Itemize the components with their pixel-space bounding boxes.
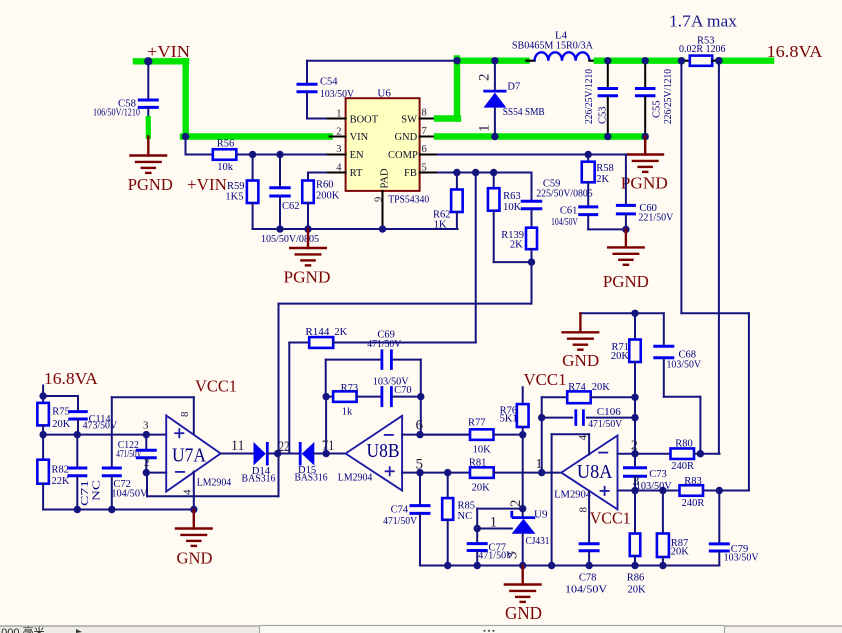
svg-text:16.8VA: 16.8VA <box>44 369 98 388</box>
node D7 bottom junction <box>491 133 498 140</box>
svg-text:471/50V: 471/50V <box>478 551 513 562</box>
svg-text:2: 2 <box>508 500 524 508</box>
wire long horizontal to U7A feedback <box>279 303 532 305</box>
wire R73 row to output node <box>325 397 327 454</box>
svg-text:R81: R81 <box>469 458 487 469</box>
status bar <box>0 626 842 633</box>
svg-text:R80: R80 <box>675 439 693 450</box>
wire U8B pin6 row <box>402 434 470 436</box>
svg-text:103/50V: 103/50V <box>667 360 702 371</box>
resistor R86 <box>634 491 636 534</box>
pin 5 FB <box>420 172 440 174</box>
svg-text:U9: U9 <box>534 509 548 521</box>
wire COMP net <box>438 154 626 156</box>
pin 8 SW <box>420 118 440 120</box>
capacitor C68 <box>663 313 665 345</box>
node R60/PGND junction <box>304 225 311 232</box>
svg-text:2K: 2K <box>334 327 347 338</box>
svg-text:2K: 2K <box>596 174 609 185</box>
svg-text:U8A: U8A <box>577 461 613 483</box>
svg-text:R56: R56 <box>217 139 235 150</box>
capacitor C106 <box>542 417 573 419</box>
svg-text:VCC1: VCC1 <box>590 509 631 528</box>
pin 1 BOOT <box>328 118 346 120</box>
svg-text:104/50V: 104/50V <box>111 489 147 500</box>
capacitor C59 <box>531 173 533 201</box>
svg-text:R63: R63 <box>503 191 521 202</box>
capacitor C71 <box>76 435 78 467</box>
svg-text:LM2904: LM2904 <box>197 477 232 489</box>
wire to C114 <box>43 395 78 397</box>
svg-text:22: 22 <box>279 439 290 455</box>
svg-text:C70: C70 <box>394 385 412 396</box>
wire green output rail after L4 <box>597 58 682 64</box>
capacitor C69 <box>326 359 382 361</box>
diode D7 <box>494 61 496 90</box>
svg-text:20K: 20K <box>628 585 647 596</box>
ground PGND (output caps) <box>644 137 646 155</box>
pin 6 COMP <box>420 154 440 156</box>
svg-text:1K: 1K <box>434 220 447 231</box>
wire reference node down to U9 <box>522 435 524 509</box>
svg-text:200K: 200K <box>316 191 340 202</box>
svg-text:GND: GND <box>505 603 542 623</box>
svg-text:R74: R74 <box>568 382 586 393</box>
svg-text:1: 1 <box>536 457 543 472</box>
node R80 right junction <box>697 450 704 457</box>
svg-text:BAS316: BAS316 <box>295 473 328 484</box>
wire U8A plus row <box>618 490 680 492</box>
wire green 16.8VA stub <box>719 58 771 64</box>
ground PGND (C58) <box>147 137 149 156</box>
resistor R83 <box>680 485 704 496</box>
svg-text:11: 11 <box>231 438 245 454</box>
svg-text:R144: R144 <box>305 327 330 338</box>
node C79 top junction <box>716 487 723 494</box>
resistor R60 <box>302 181 314 204</box>
wire GND row above R71/C68 <box>580 312 663 314</box>
node R83/R87 junction <box>659 487 666 494</box>
svg-text:240R: 240R <box>671 461 694 472</box>
resistor R82 <box>42 435 44 460</box>
svg-text:COMP: COMP <box>388 150 418 161</box>
svg-text:20K: 20K <box>592 382 611 393</box>
svg-text:240R: 240R <box>682 498 705 509</box>
svg-text:R86: R86 <box>627 573 645 584</box>
capacitor C70 <box>380 386 383 407</box>
svg-text:PGND: PGND <box>621 174 668 193</box>
node R85 bottom junction <box>444 562 451 569</box>
resistor R71 <box>634 313 636 339</box>
capacitor C78 <box>579 542 600 545</box>
node R73 row left junction <box>322 393 329 400</box>
node R74 right junction <box>631 394 638 401</box>
op-amp U7A <box>166 416 220 492</box>
svg-text:C74: C74 <box>391 505 409 516</box>
wire R139 node down <box>531 262 533 304</box>
svg-text:C106: C106 <box>597 407 621 418</box>
svg-text:221/50V: 221/50V <box>638 213 673 224</box>
pin 4 U8A power route <box>588 434 590 454</box>
svg-text:4: 4 <box>336 163 342 174</box>
svg-text:PAD: PAD <box>380 168 391 188</box>
capacitor C62 <box>279 155 281 187</box>
node U7A pin2 junction <box>143 469 150 476</box>
wire BOOT loop top <box>307 60 457 62</box>
wire R63 bottom to R139 bottom <box>494 261 532 263</box>
svg-text:U8B: U8B <box>367 440 400 462</box>
node D14/D15 cathode junction <box>274 450 281 457</box>
svg-text:1K5: 1K5 <box>225 192 243 203</box>
wire green +VIN horizontal <box>136 58 186 64</box>
svg-text:10k: 10k <box>217 162 234 173</box>
svg-text:D7: D7 <box>507 82 520 93</box>
shunt reference U9 CJ431 <box>477 508 523 510</box>
svg-text:BAS316: BAS316 <box>242 474 276 485</box>
svg-text:20K: 20K <box>611 351 630 362</box>
ground GND (bottom) <box>522 566 524 585</box>
svg-text:106/50V/1210: 106/50V/1210 <box>93 108 140 119</box>
wire green C58 to ground <box>146 119 151 137</box>
capacitor C114 <box>77 396 79 410</box>
svg-text:471/50V: 471/50V <box>116 449 142 460</box>
svg-text:CJ431: CJ431 <box>526 536 550 547</box>
svg-text:3: 3 <box>633 474 640 489</box>
svg-text:8: 8 <box>422 108 427 119</box>
svg-text:5K1: 5K1 <box>500 414 518 425</box>
svg-text:PGND: PGND <box>603 272 649 291</box>
svg-text:C73: C73 <box>649 469 667 480</box>
node R85 top junction <box>444 469 451 476</box>
node R59 top junction <box>249 151 256 158</box>
svg-text:LM2904: LM2904 <box>338 472 373 484</box>
node R86 top junction <box>631 487 638 494</box>
ground PGND (input group) <box>307 229 309 248</box>
resistor R139 <box>526 228 537 250</box>
node C106 left junction <box>538 414 545 421</box>
svg-text:226/25V/1210: 226/25V/1210 <box>584 69 595 124</box>
svg-text:C78: C78 <box>579 573 597 584</box>
svg-text:471/50V: 471/50V <box>588 419 622 430</box>
node R139 bottom junction <box>528 258 535 265</box>
resistor R81 <box>470 467 494 478</box>
svg-text:R59: R59 <box>227 181 245 192</box>
svg-text:EN: EN <box>350 150 364 161</box>
wire green vertical to VIN <box>182 61 188 136</box>
svg-text:GND: GND <box>177 549 213 568</box>
node R53 right junction <box>715 57 722 64</box>
svg-text:RT: RT <box>350 168 363 179</box>
node 16.8VA junction <box>39 392 46 399</box>
pin 3 EN <box>328 154 346 156</box>
pin 9 PAD <box>382 191 384 229</box>
svg-text:SW: SW <box>401 114 417 125</box>
svg-text:16.8VA: 16.8VA <box>767 42 823 61</box>
wire U8B pin5 row <box>402 472 470 474</box>
svg-text:3: 3 <box>336 144 341 155</box>
svg-text:1: 1 <box>477 125 493 133</box>
node R87 bottom junction <box>659 562 666 569</box>
svg-text:9: 9 <box>374 197 385 202</box>
node FB divider junction <box>472 169 479 176</box>
capacitor C72 <box>111 397 113 466</box>
svg-text:3: 3 <box>143 420 149 432</box>
pin 8 U8A power <box>588 491 590 543</box>
node PAD junction <box>379 225 386 232</box>
node R71 top junction <box>631 310 638 317</box>
pin 4 U7A power <box>193 472 195 510</box>
svg-text:+VIN: +VIN <box>187 175 227 194</box>
resistor R76 <box>522 387 524 404</box>
capacitor C55 <box>644 61 646 87</box>
svg-text:PGND: PGND <box>284 268 331 287</box>
resistor R85 <box>447 473 449 499</box>
node C71 bottom junction <box>74 506 81 513</box>
svg-text:2: 2 <box>144 457 150 469</box>
pin 7 GND <box>420 136 440 138</box>
svg-text:GND: GND <box>562 351 599 370</box>
capacitor C73 <box>634 454 636 467</box>
wire C69 right leg <box>420 360 422 435</box>
svg-text:10K: 10K <box>503 202 521 213</box>
svg-text:BOOT: BOOT <box>350 114 379 125</box>
wire U7A bottom rail <box>43 509 194 511</box>
svg-text:8: 8 <box>578 507 590 513</box>
wire VCC1 row (U7A pin8) <box>112 396 194 398</box>
resistor R59 <box>252 155 254 181</box>
svg-text:NC: NC <box>92 480 103 501</box>
wire RT net <box>308 172 328 174</box>
node D7 top junction <box>491 57 498 64</box>
svg-text:104/50V: 104/50V <box>565 585 607 596</box>
wire C68 bottom to R80 node <box>664 396 701 398</box>
svg-text:0.000 毫米: 0.000 毫米 <box>0 625 45 633</box>
svg-text:R85: R85 <box>458 501 476 512</box>
node R76/R77 junction <box>519 431 526 438</box>
svg-text:6: 6 <box>422 144 427 155</box>
svg-text:C61: C61 <box>560 206 578 217</box>
node C78 bottom junction <box>585 562 592 569</box>
node C60/C61 bottom junction <box>622 226 629 233</box>
inductor L4 <box>527 60 535 62</box>
wire U8A minus row <box>618 453 671 455</box>
svg-text:103/50V: 103/50V <box>724 553 759 564</box>
capacitor C58 <box>147 61 149 98</box>
svg-text:10K: 10K <box>473 445 492 456</box>
resistor R62 <box>456 173 458 190</box>
node R63 top junction <box>490 169 497 176</box>
node C106 right junction <box>631 414 638 421</box>
svg-text:R58: R58 <box>596 163 614 174</box>
svg-text:C71: C71 <box>80 480 91 506</box>
svg-text:SB0465M 15R0/3A: SB0465M 15R0/3A <box>512 41 593 52</box>
svg-text:471/50V: 471/50V <box>367 339 401 350</box>
wire green horizontal into pin VIN <box>183 133 330 139</box>
capacitor C53 <box>607 61 609 87</box>
svg-text:C53: C53 <box>598 106 609 124</box>
capacitor C74 <box>419 473 421 505</box>
node C71 top junction <box>74 431 81 438</box>
op-amp U8A <box>561 436 617 510</box>
wire U7A output to D14 <box>221 453 254 455</box>
svg-text:C54: C54 <box>320 77 338 88</box>
op-amp U8B <box>346 416 403 491</box>
svg-text:22K: 22K <box>52 476 71 487</box>
ground GND (R71/C68) <box>579 313 581 332</box>
wire sense line from R53 left <box>680 61 682 314</box>
svg-text:226/25V/1210: 226/25V/1210 <box>663 69 674 124</box>
capacitor C77 <box>476 529 478 543</box>
wire green GND pin 7 rail <box>437 133 645 139</box>
wire R144 to D15 cathode <box>288 343 290 454</box>
svg-text:225/50V/0805: 225/50V/0805 <box>536 189 593 200</box>
resistor R144 <box>289 342 309 344</box>
diode D15 <box>299 442 302 466</box>
node U8A output junction <box>538 469 545 476</box>
node U8A pin4 junction <box>548 562 555 569</box>
svg-text:1k: 1k <box>342 407 353 418</box>
ground PGND (compensation) <box>625 229 627 247</box>
resistor R56 <box>213 149 237 160</box>
svg-text:R73: R73 <box>341 383 359 394</box>
svg-text:8: 8 <box>179 411 191 417</box>
wire 16.8VA stub <box>42 386 44 397</box>
svg-text:0.02R 1206: 0.02R 1206 <box>679 44 726 55</box>
svg-text:FB: FB <box>404 168 417 179</box>
resistor R75 <box>42 396 44 403</box>
svg-text:VCC1: VCC1 <box>524 370 567 389</box>
node C70 row right junction <box>417 393 424 400</box>
svg-text:NC: NC <box>458 511 473 522</box>
capacitor C60 <box>616 204 636 207</box>
node U8B pin6 junction <box>416 431 423 438</box>
svg-text:LM2904: LM2904 <box>554 489 591 501</box>
wire C69 left leg <box>325 360 327 397</box>
wire loop bottom horizontal <box>147 495 279 497</box>
node D15 anode junction <box>322 450 329 457</box>
svg-text:1.7A max: 1.7A max <box>669 12 738 31</box>
svg-text:C55: C55 <box>652 100 663 118</box>
wire vertical down to diode junction <box>278 304 280 454</box>
svg-text:2: 2 <box>477 74 493 82</box>
capacitor C79 <box>718 491 720 543</box>
node R75/R82 junction <box>39 431 46 438</box>
wire output line from R53 right <box>718 61 720 454</box>
wire R56 to EN pin <box>236 154 327 156</box>
wire FB net <box>438 172 532 174</box>
wire FB to R144 vertical <box>475 173 477 343</box>
scroll panel <box>260 626 725 633</box>
node C74 top junction <box>416 469 423 476</box>
capacitor C61 <box>578 205 598 208</box>
svg-text:SS54 SMB: SS54 SMB <box>503 107 545 118</box>
svg-text:20K: 20K <box>671 547 690 558</box>
wire EN net from VIN node <box>185 137 187 155</box>
svg-text:71: 71 <box>322 438 335 454</box>
svg-text:R83: R83 <box>684 476 702 487</box>
svg-text:1: 1 <box>490 515 498 531</box>
wire diode junction down to loop <box>278 454 280 497</box>
wire U7A pin2 row <box>146 472 166 474</box>
wire U8B pin6 to R77 <box>420 434 470 436</box>
resistor R87 <box>662 491 664 534</box>
wire green SW pin to rail <box>437 115 458 121</box>
resistor R63 <box>493 173 495 189</box>
svg-text:R60: R60 <box>316 180 334 191</box>
pin 4 RT <box>328 172 346 174</box>
svg-text:2K: 2K <box>510 240 523 251</box>
svg-text:4: 4 <box>182 489 194 495</box>
svg-text:105/50V/0805: 105/50V/0805 <box>261 234 319 245</box>
svg-text:471/50V: 471/50V <box>383 516 417 527</box>
svg-text:U7A: U7A <box>172 445 206 467</box>
node +VIN junction <box>144 57 152 65</box>
ground GND (U7A) <box>193 510 195 529</box>
resistor R58 <box>587 155 589 162</box>
node C62 top junction <box>276 151 283 158</box>
svg-text:20K: 20K <box>472 483 491 494</box>
node R53 left junction <box>678 57 685 64</box>
svg-text:R82: R82 <box>52 465 70 476</box>
svg-text:4: 4 <box>577 435 589 441</box>
node U8A minus junction <box>631 450 638 457</box>
svg-text:VCC1: VCC1 <box>195 377 237 396</box>
svg-text:R75: R75 <box>52 407 70 418</box>
wire U7A pin3 row <box>43 434 166 436</box>
wire green top rail to L4 <box>457 58 527 64</box>
capacitor C122 <box>145 435 147 449</box>
svg-text:7: 7 <box>422 126 427 137</box>
node C122 top junction <box>143 431 150 438</box>
node SW/BOOT junction redraw <box>453 57 460 64</box>
wire feedback to U8A output <box>541 418 543 473</box>
node R58 top junction <box>585 151 592 158</box>
diode D14 <box>254 442 266 466</box>
svg-text:C62: C62 <box>282 201 300 212</box>
node C77 bottom junction <box>474 562 481 569</box>
op-amp U6 TPS54340 body <box>346 98 420 191</box>
svg-text:VIN: VIN <box>350 132 369 143</box>
resistor R80 <box>671 448 695 459</box>
node VIN branch junction <box>182 133 189 140</box>
svg-text:U6: U6 <box>377 88 391 100</box>
node R86 bottom junction <box>631 562 638 569</box>
resistor R73 <box>326 396 333 398</box>
wire bottom GND rail <box>420 565 719 567</box>
svg-text:PGND: PGND <box>128 175 173 194</box>
svg-text:20K: 20K <box>52 419 70 430</box>
node SW/BOOT junction <box>453 57 460 64</box>
svg-text:TPS54340: TPS54340 <box>388 194 429 206</box>
wire R74/C106 left leg <box>541 397 543 417</box>
svg-text:104/50V: 104/50V <box>551 217 578 228</box>
svg-text:R77: R77 <box>468 418 486 429</box>
node R62 top junction <box>453 169 460 176</box>
capacitor C54 <box>306 61 308 83</box>
wire loop up to U7A pin2 <box>146 473 148 497</box>
resistor R74 <box>542 396 568 398</box>
node C72 bottom junction <box>108 506 115 513</box>
node R53 right junction redraw <box>715 57 722 64</box>
node C62 bottom junction <box>276 225 283 232</box>
svg-text:1: 1 <box>336 109 341 120</box>
resistor R77 <box>470 429 494 440</box>
svg-text:5: 5 <box>422 163 427 174</box>
node U9 anode junction <box>519 562 526 569</box>
svg-text:2: 2 <box>336 127 341 138</box>
pin 2 VIN <box>330 136 346 138</box>
wire bottom rail of input group <box>253 228 458 230</box>
